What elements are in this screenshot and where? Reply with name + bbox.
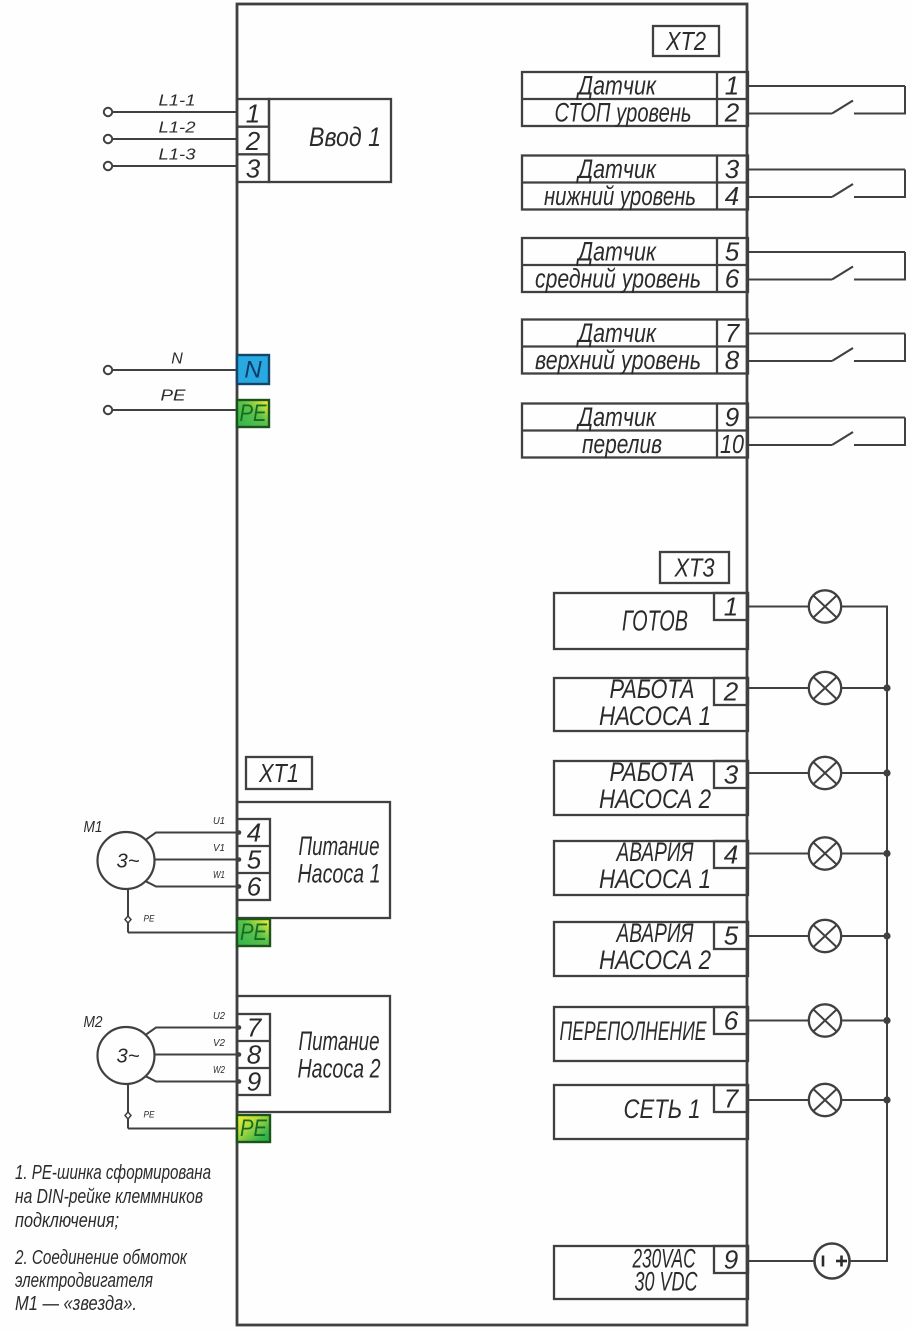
- svg-text:НАСОСА 2: НАСОСА 2: [599, 945, 711, 975]
- box outline: [554, 678, 748, 731]
- wire lamp to bus: [841, 1099, 889, 1101]
- input terminal circle L1-3: [104, 162, 112, 170]
- wire XT3 pin 1 to lamp: [748, 606, 810, 608]
- wire lamp to bus: [841, 606, 889, 608]
- bus junction at pin 5 wire: [883, 932, 890, 939]
- terminal cell: [714, 593, 748, 620]
- box outline: [554, 593, 748, 649]
- svg-text:V1: V1: [213, 843, 225, 854]
- bus junction at pin 4 wire: [883, 850, 890, 857]
- connection dot pin 9: [237, 1079, 242, 1084]
- wire lamp to bus: [841, 935, 889, 937]
- svg-text:4: 4: [247, 818, 261, 848]
- svg-text:АВАРИЯ: АВАРИЯ: [615, 918, 694, 948]
- output block XT3 pin 6 (ПЕРЕПОЛНЕНИЕ): [554, 1004, 888, 1061]
- svg-text:XT3: XT3: [674, 553, 715, 583]
- svg-text:4: 4: [725, 181, 739, 211]
- svg-text:СЕТЬ 1: СЕТЬ 1: [624, 1094, 701, 1124]
- connection dot pin 5: [237, 857, 242, 862]
- motor М1 circle: [98, 832, 155, 889]
- terminal PE (green/yellow): [237, 400, 269, 427]
- svg-text:PE: PE: [240, 1115, 268, 1142]
- svg-text:5: 5: [247, 845, 262, 875]
- input terminal circle L1-2: [104, 135, 112, 143]
- svg-text:1: 1: [724, 592, 738, 622]
- wire from pin 6: [748, 279, 832, 281]
- svg-text:9: 9: [724, 1245, 738, 1275]
- svg-text:N: N: [244, 357, 262, 384]
- svg-text:L1-1: L1-1: [159, 93, 196, 110]
- box outline: [554, 922, 748, 976]
- indicator lamp HL7: [809, 1084, 841, 1116]
- terminal N (blue): [237, 355, 269, 384]
- wire from pin 10: [748, 444, 832, 446]
- wire to switch: [854, 360, 906, 362]
- terminal cell divider: [716, 72, 718, 126]
- wire phase V2: [155, 1054, 239, 1056]
- terminal cell: [714, 841, 748, 868]
- box СТОП уровень: [522, 72, 748, 126]
- wire to switch: [854, 279, 906, 281]
- output block XT3 pin 3 (РАБОТА): [554, 757, 888, 815]
- svg-text:30 VDC: 30 VDC: [635, 1267, 698, 1297]
- svg-text:PE: PE: [144, 1110, 156, 1120]
- svg-text:2: 2: [245, 126, 261, 156]
- svg-text:5: 5: [725, 237, 740, 267]
- wire L1-1: [113, 111, 238, 113]
- wire from pin 9: [748, 417, 905, 419]
- terminal cell divider: [716, 404, 718, 458]
- wire motor М1 PE down: [127, 889, 129, 933]
- wire lamp to bus: [841, 772, 889, 774]
- wire phase V1: [155, 859, 239, 861]
- wire XT3 pin 5 to lamp: [748, 935, 810, 937]
- box outline: [554, 761, 748, 815]
- svg-text:U1: U1: [213, 816, 225, 827]
- output block XT3 pin 5 (АВАРИЯ): [554, 918, 888, 976]
- svg-text:3: 3: [725, 154, 740, 184]
- level switch contact SL1 blade: [832, 101, 853, 114]
- svg-text:8: 8: [725, 345, 740, 375]
- terminal block label XT2: [653, 26, 719, 56]
- svg-text:L1-3: L1-3: [159, 147, 196, 164]
- wire lamp to bus: [841, 687, 889, 689]
- wire phase W1: [146, 881, 238, 886]
- PE wire marker: [125, 1112, 131, 1119]
- svg-text:9: 9: [247, 1067, 261, 1097]
- connection dot pin 7: [237, 1025, 242, 1030]
- svg-text:НАСОСА 2: НАСОСА 2: [599, 784, 711, 814]
- terminal cell divider: [716, 156, 718, 210]
- power module Питание Насоса 1 outline: [237, 802, 390, 918]
- bus junction at pin 7 wire: [883, 1096, 890, 1103]
- wire lamp to bus: [841, 1020, 889, 1022]
- wire phase W2: [146, 1076, 238, 1081]
- level switch contact SL2 blade: [832, 184, 853, 197]
- svg-text:нижний уровень: нижний уровень: [544, 181, 696, 211]
- svg-text:7: 7: [725, 318, 741, 348]
- wire right vertical: [904, 334, 906, 362]
- wire XT3 pin 7 to lamp: [748, 1099, 810, 1101]
- sensor input block XT2 pins 5-6 (Датчик средний уровень): [522, 237, 906, 294]
- svg-text:3~: 3~: [117, 851, 140, 873]
- svg-text:PE: PE: [144, 914, 156, 924]
- wire from pin 4: [748, 196, 832, 198]
- svg-text:L1-2: L1-2: [159, 120, 196, 137]
- box перелив: [522, 404, 748, 458]
- svg-text:М1: М1: [84, 819, 103, 836]
- svg-text:1: 1: [246, 99, 260, 129]
- svg-text:Датчик: Датчик: [576, 402, 657, 432]
- svg-text:РАБОТА: РАБОТА: [610, 674, 695, 704]
- svg-text:U2: U2: [213, 1011, 225, 1022]
- svg-text:PE: PE: [240, 400, 268, 427]
- bus junction at pin 3 wire: [883, 769, 890, 776]
- terminal cell: [714, 1007, 748, 1034]
- wire XT3 pin 2 to lamp: [748, 687, 810, 689]
- svg-text:5: 5: [724, 921, 739, 951]
- wire from pin 2: [748, 113, 832, 115]
- bus junction at pin 6 wire: [883, 1017, 890, 1024]
- wire from pin 3: [748, 169, 905, 171]
- wire lamp to bus: [841, 853, 889, 855]
- svg-text:6: 6: [724, 1006, 739, 1036]
- wire XT3 pin 4 to lamp: [748, 853, 810, 855]
- box outline: [554, 1007, 748, 1061]
- terminal cell: [714, 922, 748, 949]
- svg-text:Датчик: Датчик: [576, 237, 657, 267]
- svg-text:6: 6: [247, 872, 262, 902]
- svg-text:2: 2: [724, 98, 740, 128]
- lamp common bus wire: [886, 607, 888, 1262]
- svg-text:4: 4: [724, 840, 738, 870]
- wire motor М1 PE to terminal: [128, 932, 238, 934]
- svg-text:W2: W2: [213, 1065, 225, 1076]
- svg-text:2: 2: [723, 677, 739, 707]
- svg-text:Ввод 1: Ввод 1: [309, 122, 381, 152]
- output block XT3 pin 2 (РАБОТА): [554, 672, 888, 731]
- wire right vertical: [904, 86, 906, 114]
- indicator lamp HL6: [809, 1004, 841, 1036]
- power source symbol G1 (230VAC/30VDC): [815, 1244, 850, 1279]
- level switch contact SL5 blade: [832, 432, 853, 445]
- svg-text:PE: PE: [161, 388, 186, 405]
- sensor input block XT2 pins 9-10 (Датчик перелив): [522, 402, 906, 459]
- level switch contact SL3 blade: [832, 267, 853, 280]
- sensor input block XT2 pins 3-4 (Датчик нижний уровень): [522, 154, 906, 211]
- svg-text:6: 6: [725, 264, 740, 294]
- indicator lamp HL5: [809, 920, 841, 952]
- wire right vertical: [904, 252, 906, 280]
- terminal strip cells 4-6: [237, 819, 270, 900]
- wire to switch: [854, 444, 906, 446]
- wire right vertical: [904, 170, 906, 198]
- svg-text:3: 3: [724, 760, 739, 790]
- sensor input block XT2 pins 1-2 (Датчик СТОП уровень): [522, 71, 906, 128]
- terminal PE (green/yellow): [237, 919, 270, 946]
- box outline: [554, 1246, 748, 1299]
- svg-text:XT2: XT2: [665, 26, 706, 56]
- terminal block label XT3: [660, 552, 729, 583]
- wire motor М2 PE down: [127, 1084, 129, 1129]
- wire to switch: [854, 113, 906, 115]
- input terminal circle PE: [104, 406, 112, 414]
- svg-text:V2: V2: [213, 1038, 225, 1049]
- wire phase U2: [146, 1028, 238, 1035]
- wire L1-3: [113, 165, 238, 167]
- motor М2 circle: [98, 1027, 155, 1084]
- power module Питание Насоса 2 outline: [237, 996, 390, 1112]
- sensor input block XT2 pins 7-8 (Датчик верхний уровень): [522, 318, 906, 375]
- connection dot pin 8: [237, 1052, 242, 1057]
- svg-text:1. PE-шинка сформирована: 1. PE-шинка сформирована: [15, 1162, 211, 1184]
- svg-text:3~: 3~: [117, 1046, 140, 1068]
- box средний уровень: [522, 238, 748, 292]
- svg-text:М1 — «звезда».: М1 — «звезда».: [15, 1293, 137, 1315]
- svg-text:М2: М2: [84, 1014, 103, 1031]
- svg-text:НАСОСА 1: НАСОСА 1: [599, 864, 711, 894]
- svg-text:РАБОТА: РАБОТА: [610, 757, 695, 787]
- terminal cell: [714, 1246, 748, 1273]
- svg-text:7: 7: [724, 1084, 740, 1114]
- row divider: [522, 181, 748, 183]
- connection dot pin 6: [237, 884, 242, 889]
- svg-text:7: 7: [247, 1013, 263, 1043]
- terminal strip cells 7-9: [237, 1014, 270, 1095]
- svg-text:8: 8: [247, 1040, 262, 1070]
- svg-text:верхний уровень: верхний уровень: [535, 345, 701, 375]
- svg-text:ПЕРЕПОЛНЕНИЕ: ПЕРЕПОЛНЕНИЕ: [560, 1016, 708, 1046]
- wire from pin 7: [748, 333, 905, 335]
- svg-text:W1: W1: [213, 870, 225, 881]
- wire L1-2: [113, 138, 238, 140]
- svg-text:3: 3: [246, 154, 261, 184]
- terminal cell: [714, 678, 748, 705]
- level switch contact SL4 blade: [832, 348, 853, 361]
- box нижний уровень: [522, 156, 748, 210]
- svg-text:XT1: XT1: [258, 758, 299, 788]
- svg-text:PE: PE: [240, 919, 268, 946]
- svg-text:СТОП уровень: СТОП уровень: [555, 98, 692, 128]
- wire XT3 pin 6 to lamp: [748, 1020, 810, 1022]
- output block XT3 pin 7 (СЕТЬ 1): [554, 1084, 888, 1140]
- notes text block: [14, 1162, 211, 1315]
- svg-text:Датчик: Датчик: [576, 71, 657, 101]
- svg-text:Насоса 1: Насоса 1: [298, 859, 381, 889]
- svg-text:ГОТОВ: ГОТОВ: [622, 606, 688, 638]
- output block XT3 pin 1 (ГОТОВ): [554, 590, 888, 649]
- row divider: [522, 98, 748, 100]
- wire PE: [113, 409, 238, 411]
- svg-text:НАСОСА 1: НАСОСА 1: [599, 701, 711, 731]
- svg-text:Датчик: Датчик: [576, 154, 657, 184]
- box верхний уровень: [522, 320, 748, 374]
- indicator lamp HL4: [809, 837, 841, 869]
- svg-text:2. Соединение обмоток: 2. Соединение обмоток: [14, 1247, 188, 1269]
- wire right vertical: [904, 418, 906, 446]
- row divider: [522, 429, 748, 431]
- terminal cell divider: [716, 320, 718, 374]
- input terminal circle L1-1: [104, 108, 112, 116]
- terminal strip cells 1-3: [237, 99, 269, 182]
- output block XT3 pin 9 (230VAC): [554, 1244, 888, 1300]
- svg-text:9: 9: [725, 402, 739, 432]
- input terminal circle N: [104, 366, 112, 374]
- terminal cell: [714, 1085, 748, 1112]
- svg-text:АВАРИЯ: АВАРИЯ: [615, 837, 694, 867]
- indicator lamp HL2: [809, 672, 841, 704]
- wire XT3 pin 9 to source: [748, 1260, 815, 1262]
- wire to switch: [854, 196, 906, 198]
- wire phase U1: [146, 833, 238, 840]
- bus junction at pin 2 wire: [883, 684, 890, 691]
- enclosure frame (control cabinet boundary): [237, 4, 747, 1325]
- input module Ввод 1 outline: [269, 99, 391, 182]
- svg-text:Питание: Питание: [299, 831, 380, 861]
- terminal cell divider: [716, 238, 718, 292]
- terminal PE (green/yellow): [237, 1115, 270, 1142]
- svg-text:электродвигателя: электродвигателя: [15, 1270, 153, 1292]
- wire N: [113, 369, 238, 371]
- connection dot pin 4: [237, 830, 242, 835]
- wire XT3 pin 3 to lamp: [748, 772, 810, 774]
- svg-text:N: N: [171, 351, 183, 368]
- svg-text:средний уровень: средний уровень: [535, 264, 701, 294]
- indicator lamp HL1: [809, 590, 841, 622]
- indicator lamp HL3: [809, 757, 841, 789]
- svg-text:Насоса 2: Насоса 2: [298, 1054, 381, 1084]
- svg-text:подключения;: подключения;: [15, 1210, 119, 1232]
- PE wire marker: [125, 916, 131, 923]
- wire source to bus: [850, 1260, 889, 1262]
- output block XT3 pin 4 (АВАРИЯ): [554, 837, 888, 895]
- box outline: [554, 841, 748, 895]
- svg-text:перелив: перелив: [582, 429, 662, 459]
- terminal block label XT1: [246, 757, 312, 789]
- wire from pin 1: [748, 85, 905, 87]
- row divider: [522, 345, 748, 347]
- wire from pin 5: [748, 251, 905, 253]
- wire motor М2 PE to terminal: [128, 1128, 238, 1130]
- svg-text:1: 1: [725, 71, 739, 101]
- svg-text:на DIN-рейке клеммников: на DIN-рейке клеммников: [15, 1186, 203, 1208]
- box outline: [554, 1085, 748, 1139]
- svg-text:Датчик: Датчик: [576, 318, 657, 348]
- row divider: [522, 264, 748, 266]
- svg-text:Питание: Питание: [299, 1026, 380, 1056]
- wire from pin 8: [748, 360, 832, 362]
- terminal cell: [714, 761, 748, 788]
- svg-text:10: 10: [720, 429, 744, 459]
